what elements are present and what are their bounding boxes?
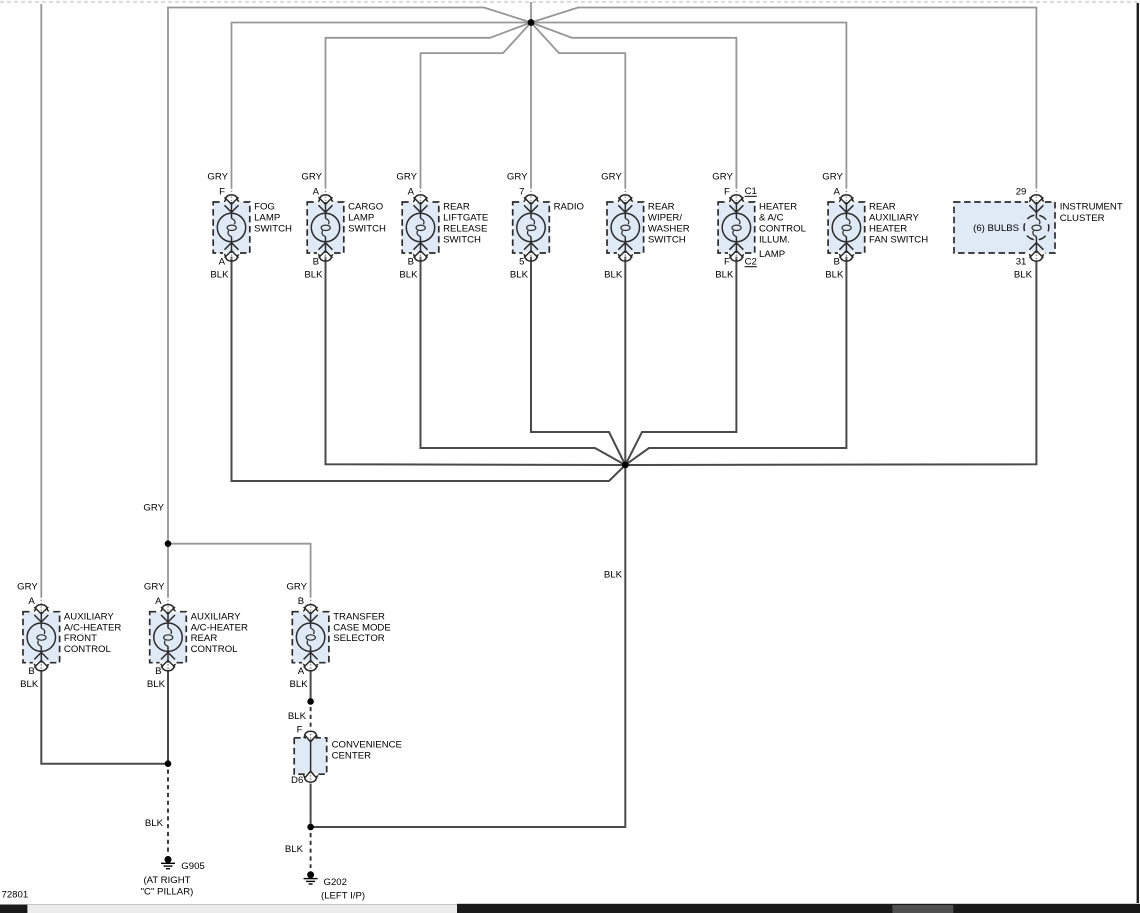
- fuse block: CONVENIENCE CENTER: [291, 725, 402, 786]
- svg-text:CONTROL: CONTROL: [64, 644, 112, 655]
- svg-text:SELECTOR: SELECTOR: [333, 633, 385, 644]
- svg-text:BLK: BLK: [145, 818, 164, 829]
- svg-text:REAR: REAR: [648, 202, 675, 213]
- svg-text:SWITCH: SWITCH: [348, 224, 386, 235]
- svg-text:CLUSTER: CLUSTER: [1060, 213, 1105, 224]
- svg-text:C1: C1: [745, 186, 757, 197]
- svg-text:AUXILIARY: AUXILIARY: [64, 611, 115, 622]
- svg-text:CARGO: CARGO: [348, 202, 383, 213]
- svg-text:72801: 72801: [2, 890, 29, 901]
- svg-text:BLK: BLK: [20, 679, 39, 690]
- wire GRY feed to auxiliary A/C-heater front control (left vertical): [40, 4, 42, 597]
- wire BLK from convenience center to node: [310, 784, 312, 828]
- wire BLK dashed down to G905: [167, 770, 169, 853]
- svg-text:B: B: [833, 256, 839, 267]
- svg-text:GRY: GRY: [144, 581, 165, 592]
- svg-text:B: B: [28, 666, 34, 677]
- lamp switch: CARGO LAMP SWITCH: [301, 172, 386, 281]
- wire BLK from rear liftgate release switch to splice: [421, 257, 626, 465]
- svg-text:GRY: GRY: [143, 502, 164, 513]
- wire BLK from radio to splice: [531, 257, 625, 465]
- wire BLK from auxiliary rear control to node: [167, 672, 169, 764]
- svg-text:LAMP: LAMP: [254, 213, 280, 224]
- wire GRY to instrument cluster: [531, 8, 1036, 188]
- svg-text:G905: G905: [181, 861, 204, 872]
- svg-text:B: B: [155, 666, 161, 677]
- svg-text:(LEFT I/P): (LEFT I/P): [321, 891, 365, 902]
- svg-text:BLK: BLK: [510, 270, 529, 281]
- ground G202 (left I/P): [304, 871, 365, 901]
- svg-text:"C" PILLAR): "C" PILLAR): [141, 886, 194, 897]
- ground G905 (at right "C" pillar): [141, 856, 205, 897]
- svg-text:BLK: BLK: [304, 270, 323, 281]
- page top dashed border: [0, 1, 1140, 3]
- svg-text:GRY: GRY: [17, 581, 38, 592]
- svg-text:F: F: [297, 725, 303, 736]
- svg-text:GRY: GRY: [712, 172, 733, 183]
- svg-text:D6: D6: [291, 775, 303, 786]
- svg-text:GRY: GRY: [396, 172, 417, 183]
- svg-text:F: F: [219, 186, 225, 197]
- svg-text:A/C-HEATER: A/C-HEATER: [64, 622, 121, 633]
- wire BLK dashed down to G202: [310, 833, 312, 868]
- wire BLK from rear auxiliary heater fan switch to splice: [625, 257, 846, 465]
- page right border: [1137, 3, 1139, 903]
- svg-text:CONVENIENCE: CONVENIENCE: [332, 739, 402, 750]
- svg-text:A: A: [219, 256, 226, 267]
- svg-text:CENTER: CENTER: [332, 751, 372, 762]
- wire GRY to cargo lamp switch: [326, 23, 532, 188]
- svg-text:REAR: REAR: [869, 202, 896, 213]
- svg-text:7: 7: [519, 186, 524, 197]
- svg-text:B: B: [408, 256, 414, 267]
- svg-text:FOG: FOG: [254, 202, 275, 213]
- svg-text:SWITCH: SWITCH: [443, 234, 481, 245]
- svg-text:FRONT: FRONT: [64, 633, 97, 644]
- svg-text:CONTROL: CONTROL: [191, 644, 239, 655]
- svg-text:BLK: BLK: [715, 270, 734, 281]
- svg-text:GRY: GRY: [301, 172, 322, 183]
- node: BLK splice above G202: [307, 824, 314, 831]
- svg-text:A: A: [833, 186, 840, 197]
- svg-text:B: B: [298, 596, 304, 607]
- svg-text:ILLUM.: ILLUM.: [759, 234, 790, 245]
- wire GRY to rear auxiliary heater fan switch: [531, 23, 846, 188]
- svg-text:AUXILIARY: AUXILIARY: [869, 213, 920, 224]
- svg-text:GRY: GRY: [507, 172, 528, 183]
- svg-text:INSTRUMENT: INSTRUMENT: [1060, 202, 1123, 213]
- svg-text:B: B: [313, 256, 319, 267]
- lamp switch: FOG LAMP SWITCH: [207, 172, 292, 281]
- svg-text:BLK: BLK: [604, 569, 623, 580]
- svg-text:BLK: BLK: [1014, 270, 1033, 281]
- lamp switch: REAR WIPER/WASHER SWITCH: [601, 172, 690, 281]
- svg-text:TRANSFER: TRANSFER: [333, 611, 385, 622]
- wire GRY to rear liftgate release switch: [421, 23, 532, 188]
- svg-text:& A/C: & A/C: [759, 213, 784, 224]
- lamp: HEATER & A/C CONTROL ILLUM. LAMP: [712, 172, 806, 281]
- svg-text:SWITCH: SWITCH: [648, 234, 686, 245]
- node: BLK splice above G905: [165, 760, 172, 767]
- svg-text:LIFTGATE: LIFTGATE: [443, 213, 488, 224]
- svg-text:AUXILIARY: AUXILIARY: [191, 611, 242, 622]
- wire GRY to rear wiper/washer switch: [531, 23, 625, 188]
- svg-text:RELEASE: RELEASE: [443, 224, 487, 235]
- svg-text:(AT RIGHT: (AT RIGHT: [143, 875, 190, 886]
- control: AUXILIARY A/C-HEATER FRONT CONTROL: [17, 581, 121, 690]
- wire BLK dashed to convenience center connector: [310, 707, 312, 729]
- node: BLK splice junction (mid): [622, 462, 629, 469]
- svg-text:A: A: [408, 186, 415, 197]
- wire GRY to heater & A/C control illumination lamp: [531, 23, 736, 188]
- svg-text:CONTROL: CONTROL: [759, 224, 807, 235]
- svg-text:A: A: [298, 666, 305, 677]
- lamp switch: REAR LIFTGATE RELEASE SWITCH: [396, 172, 488, 281]
- node: BLK splice above convenience center: [307, 698, 314, 705]
- svg-text:BLK: BLK: [147, 679, 166, 690]
- bottom scrollbar: [0, 904, 1140, 913]
- svg-text:REAR: REAR: [443, 202, 470, 213]
- svg-text:BLK: BLK: [288, 711, 307, 722]
- wire BLK from splice down to ground run: [311, 465, 625, 827]
- svg-text:CASE MODE: CASE MODE: [333, 622, 391, 633]
- svg-text:C2: C2: [745, 257, 757, 268]
- svg-text:(6) BULBS: (6) BULBS: [973, 223, 1019, 234]
- svg-text:GRY: GRY: [207, 172, 228, 183]
- svg-text:WIPER/: WIPER/: [648, 213, 682, 224]
- svg-text:LAMP: LAMP: [348, 213, 374, 224]
- svg-text:BLK: BLK: [289, 679, 308, 690]
- wire BLK from fog lamp switch to splice: [232, 257, 626, 481]
- svg-text:RADIO: RADIO: [554, 202, 584, 213]
- wire BLK from cargo lamp switch to splice: [326, 257, 626, 465]
- svg-text:FAN SWITCH: FAN SWITCH: [869, 234, 928, 245]
- svg-text:G202: G202: [324, 877, 347, 888]
- svg-text:BLK: BLK: [210, 270, 229, 281]
- switch: TRANSFER CASE MODE SELECTOR: [286, 581, 390, 690]
- wire GRY to radio: [530, 23, 532, 188]
- svg-text:BLK: BLK: [399, 270, 418, 281]
- wire GRY junction branch to x=168 (aux rear control / transfer case feeder): [168, 8, 531, 544]
- wire BLK from auxiliary front control to node: [41, 672, 168, 764]
- wire GRY branch to transfer case mode selector: [168, 544, 311, 597]
- lamp switch: REAR AUXILIARY HEATER FAN SWITCH: [822, 172, 928, 281]
- svg-text:F: F: [724, 256, 730, 267]
- wire GRY from node to auxiliary A/C-heater rear control: [167, 544, 169, 597]
- wire GRY stub going off-page at top: [530, 2, 532, 23]
- svg-text:F: F: [724, 186, 730, 197]
- svg-text:A: A: [28, 596, 35, 607]
- svg-text:GRY: GRY: [286, 581, 307, 592]
- node: GRY splice at x=168: [165, 540, 172, 547]
- node: GRY splice junction (top): [528, 19, 535, 26]
- svg-text:A: A: [155, 596, 162, 607]
- wire BLK from instrument cluster to splice: [625, 261, 1036, 465]
- svg-text:REAR: REAR: [191, 633, 218, 644]
- svg-text:A/C-HEATER: A/C-HEATER: [191, 622, 248, 633]
- svg-text:BLK: BLK: [825, 270, 844, 281]
- wire BLK from transfer case selector to node: [310, 672, 312, 702]
- svg-text:GRY: GRY: [822, 172, 843, 183]
- svg-text:HEATER: HEATER: [869, 224, 907, 235]
- wire BLK from rear wiper/washer switch to splice: [624, 257, 626, 465]
- svg-text:WASHER: WASHER: [648, 224, 690, 235]
- wire BLK from heater & A/C control illum lamp to splice: [625, 257, 736, 465]
- svg-text:31: 31: [1016, 256, 1027, 267]
- lamp: RADIO: [507, 172, 584, 281]
- svg-text:HEATER: HEATER: [759, 202, 797, 213]
- svg-text:BLK: BLK: [604, 270, 623, 281]
- wire GRY to fog lamp switch: [232, 23, 532, 188]
- instrument cluster (6 bulbs): [954, 186, 1123, 280]
- svg-text:5: 5: [519, 256, 524, 267]
- svg-text:A: A: [313, 186, 320, 197]
- svg-text:BLK: BLK: [285, 844, 304, 855]
- svg-text:29: 29: [1016, 186, 1027, 197]
- svg-text:SWITCH: SWITCH: [254, 224, 292, 235]
- svg-text:GRY: GRY: [601, 172, 622, 183]
- svg-text:LAMP: LAMP: [759, 249, 785, 260]
- control: AUXILIARY A/C-HEATER REAR CONTROL: [144, 581, 248, 690]
